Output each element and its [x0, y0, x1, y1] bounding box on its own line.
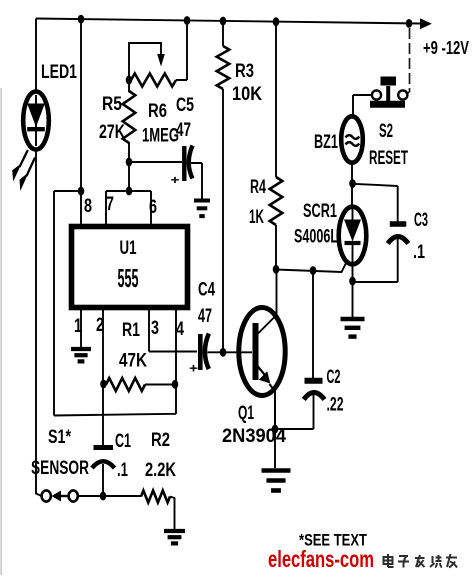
wire C5 right lead to ground	[191, 163, 202, 199]
ground below R2	[164, 531, 185, 543]
wire R4 top lead	[275, 22, 277, 177]
wire C2 top lead	[312, 271, 314, 379]
node dot rail/R6	[184, 16, 191, 25]
svg-text:27K: 27K	[99, 122, 125, 143]
svg-text:.1: .1	[117, 460, 128, 481]
svg-text:C5: C5	[176, 95, 194, 116]
svg-text:elecfans-com: elecfans-com	[268, 546, 374, 572]
Q1 emitter lead with arrow	[257, 366, 275, 431]
svg-text:1MEG: 1MEG	[142, 126, 179, 147]
Q1 base bar	[253, 323, 259, 380]
capacitor C2 curved plate	[304, 393, 325, 400]
LED1 light emission arrow 1	[12, 150, 28, 182]
wire pin 2 down	[102, 308, 104, 445]
svg-text:7: 7	[106, 194, 114, 215]
switch S2 pushbutton	[370, 77, 407, 105]
svg-text:C3: C3	[414, 210, 428, 231]
ground below SCR1	[341, 319, 365, 337]
wire LED1 anode from rail	[35, 19, 37, 93]
node dot SCR cathode/C3	[349, 277, 356, 286]
svg-text:2.2K: 2.2K	[145, 460, 176, 481]
svg-text:.1: .1	[413, 242, 425, 263]
buzzer BZ1 body	[341, 116, 363, 162]
ground below C5	[194, 201, 210, 217]
svg-text:C1: C1	[115, 431, 131, 452]
svg-text:S2: S2	[379, 121, 393, 142]
wire R6 right end to rail	[176, 21, 187, 81]
wire R3 top lead	[222, 21, 224, 46]
svg-text:+: +	[171, 173, 180, 187]
svg-text:R2: R2	[151, 430, 170, 451]
resistor R5 27K	[123, 91, 136, 143]
node dot pin8/tie	[78, 187, 85, 196]
capacitor C2 flat plate	[305, 378, 323, 384]
node dot R3/C4/base	[220, 348, 227, 357]
capacitor C3 curved plate	[388, 237, 409, 244]
capacitor C3 flat plate	[390, 221, 407, 227]
svg-text:R5: R5	[102, 94, 122, 115]
wire +V top supply rail	[36, 19, 420, 24]
svg-text:47K: 47K	[119, 351, 147, 372]
SCR1 cathode bar	[345, 241, 361, 245]
LED1 internal lead	[35, 95, 37, 146]
node dot rail/R4	[273, 17, 280, 26]
svg-text:4: 4	[176, 319, 184, 340]
node dot R5/R6 top	[126, 76, 133, 85]
svg-text:8: 8	[84, 196, 92, 217]
resistor R2 2.2K	[141, 491, 170, 503]
wire C1 bottom lead	[102, 464, 104, 496]
svg-text:BZ1: BZ1	[314, 132, 338, 153]
node dot BZ1/SCR/C3	[349, 179, 356, 188]
wire collector node to SCR gate	[276, 260, 348, 273]
svg-text:Q1: Q1	[238, 403, 254, 424]
op-amp U1 555 IC body	[72, 227, 188, 308]
wire S1 to C1/R2 node	[78, 495, 141, 497]
svg-text:SCR1: SCR1	[303, 201, 337, 222]
node dot emitter/C2	[272, 425, 279, 434]
svg-text:47: 47	[176, 120, 191, 141]
svg-text:555: 555	[118, 263, 139, 293]
svg-text:S1*: S1*	[48, 427, 71, 448]
capacitor C4 flat plate	[198, 334, 203, 370]
svg-text:.22: .22	[327, 395, 344, 416]
LED1 body circle	[23, 92, 49, 150]
node dot R1 right	[172, 380, 179, 389]
wire R1 right lead	[145, 384, 176, 386]
scan edge artifact line	[0, 88, 2, 575]
capacitor C5 curved plate	[189, 146, 193, 179]
capacitor C5 flat plate	[182, 146, 186, 181]
node dot gate/C2	[310, 266, 317, 275]
watermark CJK text	[384, 554, 458, 568]
wire C3 top loop	[353, 184, 398, 222]
wire R5 bottom lead	[128, 142, 130, 192]
svg-text:10K: 10K	[232, 84, 262, 105]
svg-text:+9 -12V: +9 -12V	[423, 38, 469, 58]
jack S1 sensor terminals	[42, 490, 78, 501]
LED1 cathode bar	[27, 127, 45, 131]
svg-text:R1: R1	[122, 320, 140, 341]
SCR1 anode triangle	[344, 220, 361, 242]
SCR1 internal anode lead	[352, 208, 354, 220]
svg-text:3: 3	[151, 318, 159, 339]
svg-text:47: 47	[198, 306, 212, 327]
wire R5 top lead	[128, 80, 130, 92]
wire R4 bottom lead	[275, 225, 277, 269]
ground pin 1	[71, 349, 91, 361]
BZ1 AC symbol	[346, 135, 360, 146]
wire C5 left lead	[129, 161, 182, 163]
node dot R1 left	[100, 380, 107, 389]
svg-text:C2: C2	[327, 367, 341, 388]
svg-text:R4: R4	[250, 177, 266, 198]
wire BZ1 to SCR anode	[351, 163, 353, 209]
+V rail arrowhead	[420, 18, 432, 29]
capacitor C1 curved plate	[92, 461, 115, 468]
wire Q1 emitter to ground	[274, 430, 276, 468]
wire pin 1 to ground	[80, 308, 82, 347]
LED1 light emission arrow 2	[20, 158, 36, 192]
capacitor C4 curved plate	[205, 334, 209, 370]
resistor R1 47K	[106, 378, 145, 391]
wire pin 8 from rail	[80, 19, 82, 226]
svg-text:LED1: LED1	[41, 62, 77, 83]
wire S2 right terminal to rail	[406, 28, 410, 94]
svg-text:C4: C4	[198, 280, 215, 301]
capacitor C1 flat plate	[94, 445, 114, 450]
node dot rail/R3	[220, 17, 227, 26]
svg-text:R6: R6	[148, 101, 167, 122]
node dot R4/collector	[273, 265, 280, 274]
wire C2 bottom lead to emitter node	[275, 395, 314, 429]
node dot S1/C1/R2	[100, 492, 107, 501]
wire LED1 cathode down to S1	[36, 148, 42, 496]
svg-text:+: +	[189, 361, 198, 376]
Q1 collector lead	[257, 268, 277, 335]
resistor R4 1K	[270, 177, 283, 225]
node dot rail/S2	[406, 19, 413, 28]
svg-text:U1: U1	[120, 238, 137, 259]
wire R6 wiper loop	[129, 43, 161, 80]
transistor Q1 body circle	[239, 308, 285, 396]
svg-text:1K: 1K	[249, 207, 264, 228]
ground below Q1	[262, 471, 291, 491]
svg-text:SENSOR: SENSOR	[31, 458, 89, 479]
svg-text:R3: R3	[235, 61, 254, 82]
node dot rail/pin8	[78, 15, 85, 24]
wire S2 left terminal to BZ1	[353, 95, 372, 118]
svg-text:S4006L: S4006L	[294, 227, 338, 248]
wire SCR1 cathode down	[352, 244, 354, 317]
resistor R3 10K	[217, 46, 230, 89]
wire C3 bottom loop	[353, 239, 398, 282]
node dot R5 bottom to pins 7-6	[126, 187, 133, 196]
svg-text:RESET: RESET	[369, 148, 408, 169]
wire pin 3 to C4	[149, 308, 197, 352]
R6 wiper arrowhead	[157, 54, 165, 67]
node dot R5/C5	[126, 158, 133, 167]
SCR1 body circle	[339, 207, 367, 265]
wire R3 bottom lead down to Q1 base node	[222, 89, 224, 352]
potentiometer R6 1MEG (rheostat element)	[131, 74, 176, 87]
wire C4 to Q1 base	[208, 351, 253, 353]
wire pin7-pin6 tie	[106, 191, 151, 226]
wire tie pin8 to pin4 (left/bottom loop)	[54, 191, 176, 416]
LED1 diode triangle	[27, 104, 45, 128]
svg-text:6: 6	[149, 197, 157, 218]
wire R2 right lead to ground	[170, 497, 175, 530]
